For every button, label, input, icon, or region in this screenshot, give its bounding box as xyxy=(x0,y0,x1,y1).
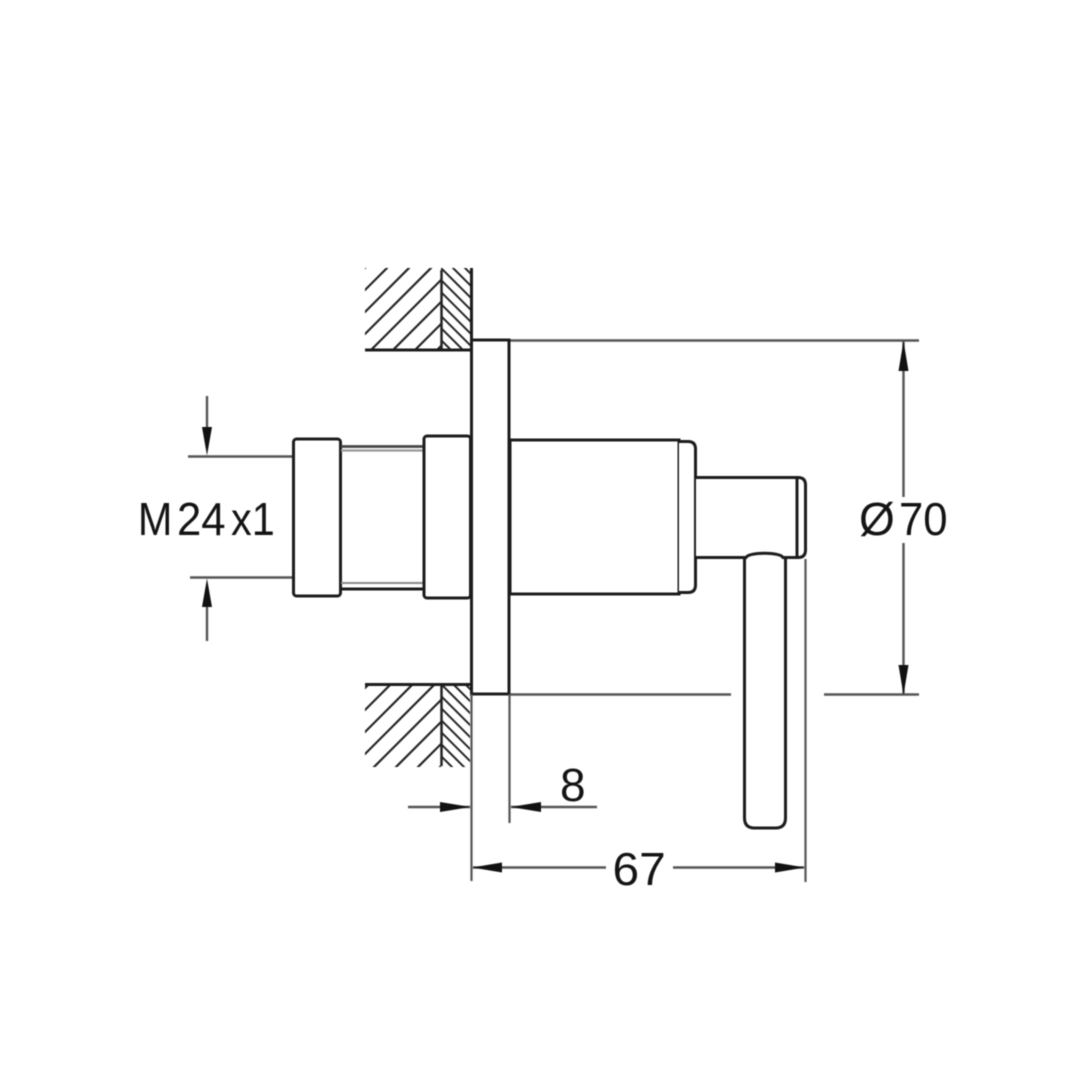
dim8 right line xyxy=(511,806,597,808)
body end cap xyxy=(679,442,696,593)
M24 top arrow xyxy=(206,396,208,430)
thread outer bottom xyxy=(341,588,424,591)
cartridge stem xyxy=(696,478,806,558)
plate left extension line xyxy=(470,694,472,881)
escutcheon plate xyxy=(472,340,510,694)
dia70 dimension line upper xyxy=(902,341,904,497)
wall hatch lower right fine xyxy=(339,666,579,786)
valve nut xyxy=(294,439,341,596)
dim67 line right xyxy=(673,866,804,868)
svg-text:Ø: Ø xyxy=(859,493,895,545)
dim67 right arrow xyxy=(775,863,805,873)
svg-text:M: M xyxy=(138,494,172,546)
stem cap line xyxy=(796,477,799,557)
extension line bottom left segment xyxy=(509,693,731,695)
dia70 dimension line lower xyxy=(902,543,904,695)
svg-text:67: 67 xyxy=(613,844,666,895)
dim67 right extension line xyxy=(804,559,806,882)
dim8 right arrow xyxy=(511,802,542,812)
extension line bottom right segment xyxy=(824,693,919,695)
plate right extension line xyxy=(508,694,510,823)
wall hatch upper left coarse xyxy=(263,250,537,370)
M24 top extension line xyxy=(188,455,292,457)
svg-text:8: 8 xyxy=(560,759,586,811)
wall underside line upper xyxy=(365,349,472,352)
M24 bottom arrow xyxy=(206,604,208,641)
thread outer top xyxy=(341,445,424,448)
wall hatch upper right fine xyxy=(351,250,579,370)
svg-text:x1: x1 xyxy=(231,494,275,546)
dia70 bottom arrow xyxy=(899,665,909,695)
thread root top xyxy=(341,449,424,451)
svg-text:24: 24 xyxy=(177,493,226,545)
valve flange xyxy=(424,436,471,598)
M24 bottom extension line xyxy=(190,576,292,578)
wall face line xyxy=(470,268,473,694)
wall top line lower xyxy=(365,683,470,686)
wall finish boundary upper xyxy=(440,270,443,350)
dim8 left arrow xyxy=(440,802,471,812)
dim67 line left xyxy=(473,866,606,868)
extension line top (plate top to dim70) xyxy=(510,339,919,341)
dim67 left arrow xyxy=(472,863,502,873)
thread root bottom xyxy=(341,582,424,584)
wall finish boundary lower xyxy=(440,684,443,766)
dim8 left line xyxy=(408,806,470,808)
lever handle bar xyxy=(745,557,786,828)
svg-text:70: 70 xyxy=(899,493,948,545)
dia70 top arrow xyxy=(899,341,909,371)
valve body xyxy=(510,440,679,594)
wall hatch lower left coarse xyxy=(263,670,537,790)
